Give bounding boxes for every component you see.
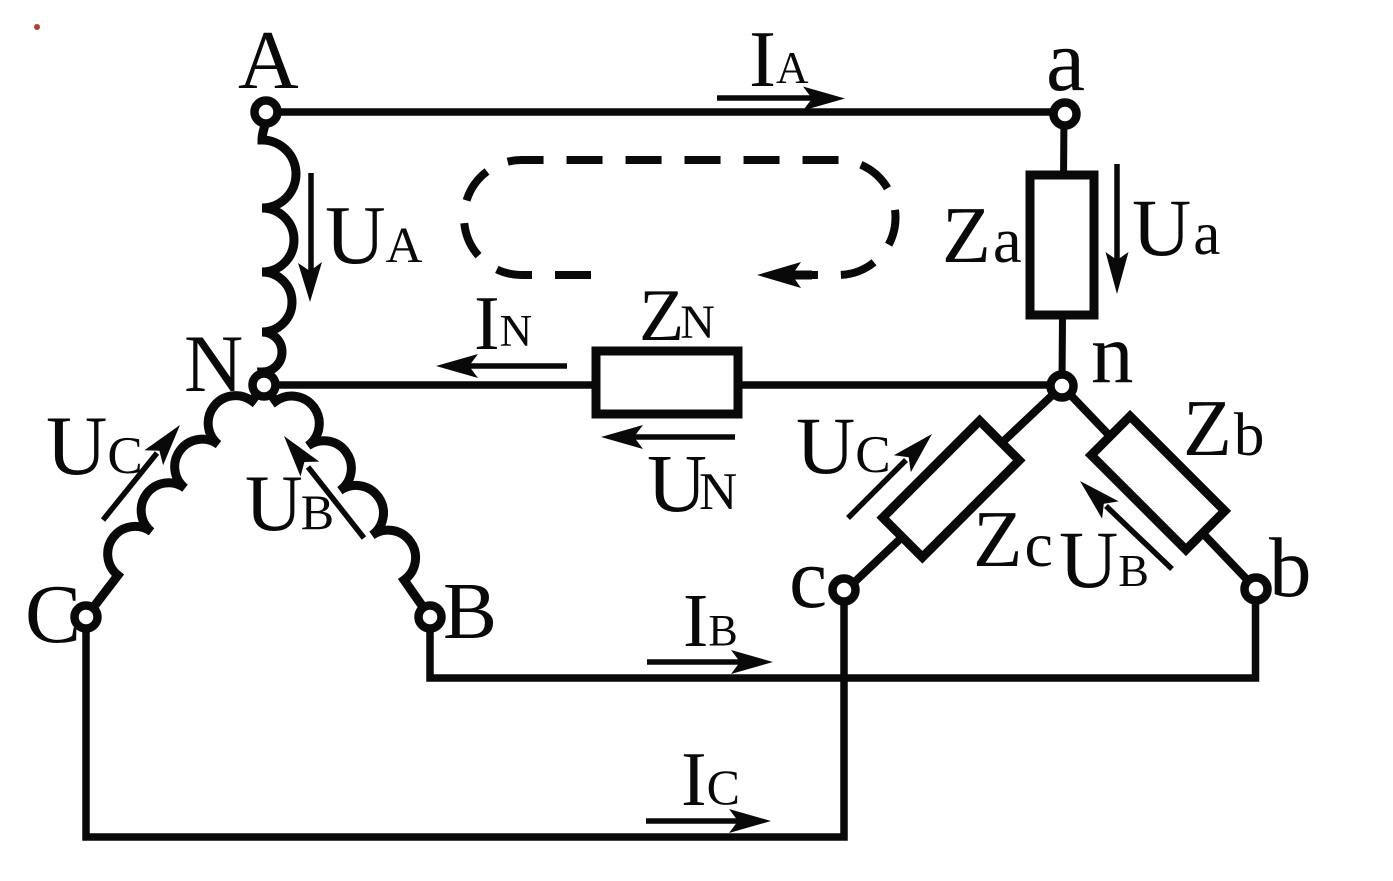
node B	[419, 606, 442, 629]
current arrow IN	[436, 354, 567, 378]
current arrow IB	[647, 650, 773, 674]
current arrow IC	[646, 809, 771, 833]
node N	[253, 374, 276, 397]
impedance ZN	[596, 351, 738, 414]
node b	[1245, 578, 1268, 601]
svg-text:B: B	[443, 566, 497, 656]
winding N-C (source phase C coil)	[86, 385, 264, 617]
dashed loop arrow	[757, 262, 812, 288]
red speck (scan artifact)	[34, 24, 40, 30]
winding A-N (source phase A coil)	[262, 117, 296, 382]
impedance Zc	[883, 421, 1019, 557]
voltage arrow UB load	[1080, 481, 1172, 569]
impedance Zb	[1091, 416, 1225, 550]
node C	[75, 606, 98, 629]
wire B-b (phase B line)	[430, 589, 1256, 678]
wire n-c (through Zc)	[844, 386, 1062, 592]
voltage arrow UB source	[284, 436, 364, 538]
winding N-B (source phase B coil)	[264, 385, 430, 617]
voltage arrow UN	[601, 425, 735, 449]
svg-text:A: A	[238, 14, 299, 107]
voltage arrow UC load	[848, 434, 932, 518]
voltage arrow UA	[298, 173, 322, 302]
wire a-n (through Za)	[1062, 114, 1064, 384]
impedance Za	[1030, 175, 1094, 315]
node n	[1051, 375, 1074, 398]
voltage arrow UC source	[103, 425, 180, 520]
svg-text:b: b	[1269, 521, 1312, 615]
wire A-a (phase A line)	[266, 108, 1065, 116]
svg-text:Za: Za	[942, 192, 1022, 280]
dashed mesh loop	[464, 160, 896, 275]
node a	[1054, 103, 1077, 126]
svg-text:N: N	[184, 318, 243, 409]
current arrow IA	[717, 87, 845, 111]
svg-text:C: C	[25, 568, 81, 661]
wire n-b (through Zb)	[1062, 386, 1256, 589]
svg-text:c: c	[789, 530, 827, 626]
svg-text:n: n	[1091, 307, 1134, 401]
wire C-c (phase C line)	[86, 592, 844, 837]
svg-text:a: a	[1046, 13, 1085, 110]
wire N-n (neutral)	[264, 381, 1062, 389]
node A	[255, 101, 278, 124]
node c	[833, 579, 856, 602]
voltage arrow Ua	[1106, 164, 1129, 294]
